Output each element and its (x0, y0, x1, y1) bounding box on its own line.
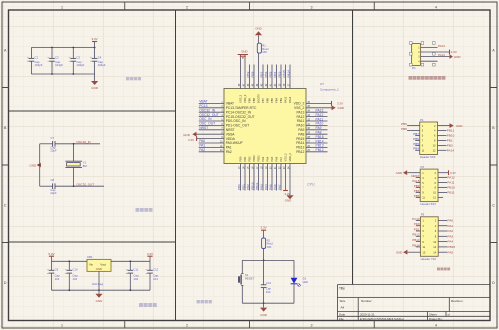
wire/net label PB6 top (267, 65, 269, 89)
svg-text:1: 1 (61, 6, 63, 10)
lblm PB5 left pin 11 (416, 196, 421, 198)
lbl PB0 right pin 10 (438, 144, 447, 146)
wire osc bottom (40, 185, 53, 187)
title block (338, 285, 491, 321)
svg-text:NRST: NRST (199, 126, 208, 130)
lbl PA0 right pin 2 (438, 219, 447, 221)
svg-text:PB9: PB9 (401, 122, 407, 126)
svg-text:PB9: PB9 (246, 71, 250, 77)
wire/net label NRST (199, 129, 224, 131)
wire/net label PB3 top (280, 65, 282, 89)
svg-text:PA5: PA5 (268, 184, 272, 190)
lbl PA14 right pin 12 (438, 149, 447, 151)
svg-text:PB6: PB6 (266, 98, 270, 103)
svg-text:PB5: PB5 (268, 71, 272, 77)
svg-text:PA0-WKUP: PA0-WKUP (226, 141, 244, 145)
wire/net label PB2 bottom (249, 164, 251, 191)
power port 3.3V programmer (449, 50, 451, 55)
svg-text:GND: GND (241, 50, 247, 54)
svg-text:VSSA: VSSA (226, 132, 236, 136)
svg-text:PA9: PA9 (298, 128, 304, 132)
capacitor C11 (129, 261, 131, 270)
svg-text:PB12: PB12 (412, 233, 420, 237)
svg-text:C8: C8 (51, 178, 55, 182)
ground GND VSSA (197, 133, 225, 135)
svg-text:PB1: PB1 (447, 139, 453, 143)
power port 3.3V right (306, 102, 332, 104)
svg-text:PA14: PA14 (438, 44, 445, 48)
svg-text:VSS_3: VSS_3 (239, 94, 243, 103)
svg-text:VDDA: VDDA (226, 137, 236, 141)
svg-text:PB0: PB0 (447, 144, 453, 148)
svg-text:104pF: 104pF (55, 63, 63, 67)
svg-text:PA1: PA1 (199, 144, 205, 148)
wire power top rail left (52, 260, 88, 262)
svg-text:PA15: PA15 (412, 179, 419, 183)
op-amp U1 MCU body (224, 89, 306, 164)
svg-text:GND: GND (396, 171, 402, 175)
wire/net label PB15 right (306, 138, 328, 140)
svg-text:VDD_2: VDD_2 (288, 153, 292, 162)
resistor R2 reset (262, 238, 266, 249)
svg-text:PA4: PA4 (264, 184, 268, 190)
wire/net label PA8 right (306, 133, 328, 135)
wire power bottom rail (52, 289, 151, 291)
gnd GND left pin 13 (407, 251, 420, 253)
none right pin 12 (438, 196, 443, 198)
svg-text:PA7: PA7 (277, 184, 281, 190)
svg-text:C: C (492, 203, 495, 207)
svg-text:PA15: PA15 (282, 70, 286, 78)
svg-text:PB11: PB11 (447, 191, 455, 195)
svg-text:PA4: PA4 (266, 156, 270, 161)
svg-text:PB6: PB6 (264, 71, 268, 77)
svg-text:GND: GND (260, 313, 268, 317)
wire/net label PB0 bottom (240, 164, 242, 191)
capacitor C12 (149, 261, 151, 270)
svg-text:PB11: PB11 (447, 129, 455, 133)
partition line crystal/power (9, 241, 176, 243)
wire/net label PA7 bottom (280, 164, 282, 191)
svg-text:PA2: PA2 (199, 148, 205, 152)
wire/net label PB13 right (306, 146, 328, 148)
svg-text:2: 2 (186, 6, 188, 10)
svg-text:3.3V: 3.3V (337, 102, 343, 106)
svg-text:GND: GND (30, 163, 38, 167)
svg-text:PB10: PB10 (250, 182, 254, 190)
wire/net label PA6 bottom (276, 164, 278, 191)
svg-text:PB11: PB11 (257, 155, 261, 162)
lblm NRST left pin 3 (416, 177, 421, 179)
svg-text:Drawn By:: Drawn By: (429, 317, 443, 321)
svg-text:C: C (4, 203, 7, 207)
wire/net label OSC_IN (199, 120, 224, 122)
svg-text:Title: Title (339, 287, 345, 291)
lbl PA12 right pin 4 (438, 177, 447, 179)
svg-text:PB5: PB5 (270, 98, 274, 103)
wire/net label PB12 right (306, 151, 328, 153)
svg-text:104pF: 104pF (98, 63, 106, 67)
svg-text:Revision: Revision (451, 299, 463, 303)
lbl PB10 right pin 8 (438, 187, 447, 189)
svg-text:PC15-OSC32_OUT: PC15-OSC32_OUT (226, 115, 255, 119)
svg-text:PA14: PA14 (286, 70, 290, 78)
ground GND reset (263, 303, 265, 307)
lblm PB13 left pin 9 (416, 241, 421, 243)
svg-text:C7: C7 (51, 136, 55, 140)
svg-text:2020-11-21: 2020-11-21 (360, 313, 375, 317)
lblm PB4 left pin 9 (416, 192, 421, 194)
pwr 3.3V right pin 2 (438, 172, 449, 174)
svg-text:Volt Reg: Volt Reg (92, 282, 104, 286)
selection handles (410, 42, 413, 45)
svg-text:PA12: PA12 (316, 113, 324, 117)
power port 3.3V power block (149, 256, 151, 261)
voltage regulator VR1 (87, 259, 111, 271)
wire/net label PA5 bottom (271, 164, 273, 191)
capacitor C13 reset (263, 260, 265, 284)
wire/net label PB7 top (262, 65, 264, 89)
lbl PB10 right pin 6 (438, 135, 447, 137)
svg-text:C11: C11 (133, 268, 138, 272)
svg-text:GND: GND (454, 55, 460, 59)
svg-text:10K: 10K (267, 245, 272, 249)
svg-text:3.3V: 3.3V (188, 138, 194, 142)
svg-text:PB3: PB3 (279, 98, 283, 103)
svg-text:PA12: PA12 (447, 176, 455, 180)
svg-text:PB10: PB10 (252, 155, 256, 162)
lblm PB12 left pin 7 (416, 235, 421, 237)
lbl PB15 right pin 12 (438, 246, 447, 248)
crystal Y1 (73, 144, 75, 161)
capacitor C4 (94, 48, 96, 59)
svg-text:PB15: PB15 (448, 245, 456, 249)
svg-text:PB12: PB12 (296, 150, 304, 154)
ground GND bottom (289, 164, 291, 196)
svg-text:4: 4 (435, 6, 437, 10)
wire/net label PA3 bottom (262, 164, 264, 191)
svg-text:PD0: PD0 (414, 222, 420, 226)
far PB9 left pin 1 (407, 125, 420, 127)
svg-text:PA13: PA13 (296, 110, 304, 114)
svg-text:PB15: PB15 (296, 137, 304, 141)
svg-text:GND: GND (456, 124, 462, 128)
junction osc top (73, 143, 75, 145)
svg-text:GND: GND (91, 86, 99, 90)
svg-text:OSC_OUT: OSC_OUT (199, 122, 215, 126)
svg-text:104: 104 (133, 277, 138, 281)
svg-text:PA7: PA7 (279, 156, 283, 161)
svg-text:GND: GND (285, 198, 291, 202)
capacitor C1 (30, 48, 32, 59)
svg-text:PB13: PB13 (412, 238, 420, 242)
svg-text:E:\Proj\MCU\STM32-MINI.SchDoc: E:\Proj\MCU\STM32-MINI.SchDoc (360, 317, 405, 321)
svg-text:PB10: PB10 (447, 134, 455, 138)
capacitor C10 (68, 261, 70, 270)
ground GND power block (98, 290, 100, 294)
svg-text:PB1: PB1 (241, 184, 245, 190)
gnd GND left pin 1 (407, 172, 420, 174)
svg-text:GND: GND (338, 106, 344, 110)
caption reset circuit 复位电路 (197, 300, 200, 303)
far PB8 left pin 3 (407, 130, 420, 132)
wire osc left rail (39, 144, 41, 186)
wire/net label VBAT (199, 102, 224, 104)
junction osc bottom (73, 185, 75, 187)
blue PB4 left pin 11 (415, 149, 420, 151)
svg-text:PB0: PB0 (239, 156, 243, 161)
wire/net label PB4 top (276, 65, 278, 89)
svg-text:104: 104 (72, 277, 77, 281)
wire/net label OSC32_OUT (199, 116, 224, 118)
svg-text:A4: A4 (341, 306, 345, 310)
svg-text:OSC32_OUT: OSC32_OUT (199, 113, 219, 117)
svg-text:PD1-OSC_OUT: PD1-OSC_OUT (226, 124, 249, 128)
svg-text:VBAT: VBAT (199, 100, 207, 104)
svg-text:Date: Date (339, 313, 345, 317)
svg-text:PB4: PB4 (414, 189, 420, 193)
svg-text:PB2: PB2 (248, 156, 252, 161)
caption programming/debug interface 程序烧录/调试接口 (409, 76, 413, 80)
lbl PA1 right pin 4 (438, 225, 447, 227)
svg-text:PA12: PA12 (296, 115, 304, 119)
svg-text:PB8: PB8 (401, 127, 407, 131)
svg-text:OSC_IN: OSC_IN (199, 117, 212, 121)
svg-text:NRST: NRST (226, 128, 235, 132)
lblm PC13 left pin 1 (416, 219, 421, 221)
svg-text:RESET: RESET (245, 276, 255, 280)
switch S1 RESET (241, 260, 243, 273)
svg-text:PC13: PC13 (412, 217, 420, 221)
svg-text:Header 6X2: Header 6X2 (420, 155, 436, 159)
svg-text:PA8: PA8 (316, 131, 322, 135)
blue PB7 left pin 5 (415, 135, 420, 137)
ground GND above resistor (258, 35, 260, 43)
svg-text:GND: GND (255, 27, 261, 31)
caption oscillator circuit 振荡电路 (136, 208, 140, 212)
lbl PA5 right pin 14 (438, 251, 447, 253)
svg-text:PB13: PB13 (296, 146, 304, 150)
wire power top rail right (111, 260, 150, 262)
wire/net label PB14 right (306, 142, 328, 144)
lbl PB11 right pin 10 (438, 192, 447, 194)
power port 5.0V (51, 256, 53, 261)
lblm PA15 left pin 5 (416, 182, 421, 184)
caption power circuit 供电电路 (139, 303, 143, 307)
svg-text:PA11: PA11 (316, 117, 324, 121)
svg-text:22pF: 22pF (50, 191, 57, 195)
svg-text:Header 7X2: Header 7X2 (421, 257, 437, 261)
svg-text:PB3: PB3 (414, 184, 420, 188)
svg-text:VDD_2: VDD_2 (294, 102, 305, 106)
svg-text:PB2: PB2 (246, 184, 250, 190)
svg-text:P2: P2 (421, 165, 425, 169)
lbl PA4 right pin 10 (438, 241, 447, 243)
svg-text:3.3V: 3.3V (92, 37, 98, 41)
wire/net label PA14 top (289, 65, 291, 89)
wire/net label PB9 top (249, 65, 251, 89)
svg-text:C10: C10 (72, 268, 78, 272)
svg-text:P3: P3 (421, 213, 425, 217)
wire/net label OSC_OUT (199, 124, 224, 126)
svg-text:PA3: PA3 (448, 234, 454, 238)
capacitor C3 (72, 48, 74, 59)
svg-text:PB5: PB5 (414, 194, 420, 198)
svg-text:104: 104 (55, 277, 60, 281)
svg-text:PB12: PB12 (316, 148, 324, 152)
connector P4 programming header body (412, 43, 421, 65)
wire/net label OSC32_IN (199, 111, 224, 113)
svg-text:PA8: PA8 (298, 132, 304, 136)
svg-text:PB6: PB6 (413, 137, 419, 141)
svg-text:PA15: PA15 (284, 96, 288, 103)
svg-text:PB7: PB7 (413, 132, 419, 136)
svg-text:5.0V: 5.0V (48, 252, 54, 256)
connector P3 body (420, 217, 438, 256)
svg-text:PB9: PB9 (248, 98, 252, 103)
svg-text:CPU: CPU (307, 183, 315, 187)
svg-text:C13: C13 (266, 281, 272, 285)
svg-text:104pF: 104pF (35, 63, 43, 67)
svg-text:PA5: PA5 (448, 250, 454, 254)
svg-text:PB4: PB4 (275, 98, 279, 103)
svg-text:PA14: PA14 (447, 148, 455, 152)
capacitor C2 (51, 48, 53, 59)
wire top pins 1-2 to ground (240, 55, 242, 89)
svg-text:Vout: Vout (100, 262, 106, 266)
svg-text:PA6: PA6 (275, 156, 279, 161)
ground GND programmer (450, 54, 453, 59)
svg-text:10K: 10K (262, 50, 267, 54)
svg-text:D: D (4, 281, 7, 285)
svg-text:VSS_2: VSS_2 (284, 153, 288, 162)
partition line vertical left/center (175, 10, 177, 321)
capacitor C9 (51, 261, 53, 270)
caption expansion interface 扩展接口 (437, 268, 440, 271)
wire/net label PA0 (199, 142, 224, 144)
lblm PB14 left pin 11 (416, 246, 421, 248)
svg-text:PB5: PB5 (413, 142, 419, 146)
wire osc top (40, 143, 53, 145)
wire/net label PB1 bottom (244, 164, 246, 191)
svg-text:PB1: PB1 (243, 156, 247, 161)
svg-text:C12: C12 (153, 268, 159, 272)
power port 3.3V bottom (285, 164, 287, 191)
svg-text:GND: GND (96, 267, 102, 271)
svg-text:PA11: PA11 (447, 181, 454, 185)
wire/net label PB11 bottom (258, 164, 260, 191)
svg-text:Sheet: Sheet (429, 313, 437, 317)
svg-text:PA5: PA5 (270, 156, 274, 161)
wire/net label PC13 (199, 107, 224, 109)
svg-text:PC13: PC13 (199, 104, 207, 108)
svg-text:PB15: PB15 (316, 135, 324, 139)
lbl PB1 right pin 8 (438, 139, 447, 141)
ground GND right (306, 107, 332, 109)
svg-text:GND: GND (96, 299, 104, 303)
lbl PB11 right pin 4 (438, 130, 447, 132)
lbl PA2 right pin 6 (438, 230, 447, 232)
svg-text:4: 4 (435, 324, 437, 328)
svg-text:3: 3 (311, 6, 313, 10)
svg-text:PB14: PB14 (412, 243, 420, 247)
lblm PD0 left pin 3 (416, 225, 421, 227)
svg-text:3.3V: 3.3V (147, 252, 153, 256)
svg-text:2: 2 (186, 324, 188, 328)
svg-text:PB13: PB13 (316, 144, 324, 148)
svg-text:U?: U? (320, 82, 324, 86)
svg-text:PA3: PA3 (261, 156, 265, 161)
wire/net label PB10 bottom (253, 164, 255, 191)
blue PB5 left pin 9 (415, 144, 420, 146)
svg-text:PB8: PB8 (252, 98, 256, 103)
svg-text:PD1: PD1 (414, 227, 420, 231)
svg-text:PC14-OSC32_IN: PC14-OSC32_IN (226, 110, 252, 114)
svg-text:D: D (492, 281, 495, 285)
svg-text:PB14: PB14 (296, 141, 304, 145)
svg-text:Header 6X2: Header 6X2 (420, 202, 436, 206)
svg-text:PB4: PB4 (413, 147, 419, 151)
svg-text:C9: C9 (55, 268, 59, 272)
svg-text:BOOT0: BOOT0 (257, 94, 261, 103)
wire/net label PA11 right (306, 120, 328, 122)
svg-text:NRST: NRST (411, 174, 419, 178)
wire/net label PA13 right (306, 111, 328, 113)
svg-text:OSC32_OUT: OSC32_OUT (76, 182, 94, 186)
connector P1 body (420, 122, 438, 155)
svg-text:PB4: PB4 (273, 71, 277, 77)
svg-text:VR1: VR1 (87, 255, 93, 259)
svg-text:PA13: PA13 (438, 53, 445, 57)
svg-text:PB8: PB8 (250, 71, 254, 77)
wire/net label PA15 top (285, 65, 287, 89)
svg-text:PA9: PA9 (316, 126, 322, 130)
power port 3.3V VDDA (197, 138, 224, 140)
svg-text:PA1: PA1 (448, 224, 454, 228)
svg-text:PA6: PA6 (273, 184, 277, 190)
junction dots cap bank (51, 47, 53, 49)
svg-text:PB0: PB0 (237, 184, 241, 190)
lblm PB3 left pin 7 (416, 187, 421, 189)
svg-text:VDD_3: VDD_3 (243, 94, 247, 103)
svg-text:8M: 8M (83, 164, 88, 168)
partition line caps/crystal (9, 110, 176, 112)
svg-text:PA2: PA2 (448, 229, 454, 233)
wire/net label PB8 top (253, 65, 255, 89)
svg-text:3.3V: 3.3V (261, 226, 267, 230)
svg-text:PB7: PB7 (261, 98, 265, 103)
blue PB6 left pin 7 (415, 139, 420, 141)
lbl PA11 right pin 6 (438, 182, 447, 184)
svg-text:GND: GND (183, 133, 191, 137)
svg-text:PA10: PA10 (316, 122, 324, 126)
resistor R1 boot (258, 53, 260, 88)
svg-text:PA10: PA10 (296, 124, 304, 128)
wire/net label PA10 right (306, 124, 328, 126)
lblm PD1 left pin 5 (416, 230, 421, 232)
svg-text:PA1: PA1 (226, 146, 232, 150)
wire/net label PA4 bottom (267, 164, 269, 191)
connector P2 body (420, 169, 438, 202)
wire reset top rail (242, 259, 294, 261)
svg-text:VBAT: VBAT (226, 102, 234, 106)
svg-text:PA0: PA0 (448, 219, 454, 223)
svg-text:22pF: 22pF (50, 149, 57, 153)
wire cap bank bottom rail (31, 73, 94, 75)
svg-text:OSC32_IN: OSC32_IN (76, 140, 91, 144)
svg-text:3: 3 (311, 324, 313, 328)
svg-text:Size: Size (340, 299, 346, 303)
